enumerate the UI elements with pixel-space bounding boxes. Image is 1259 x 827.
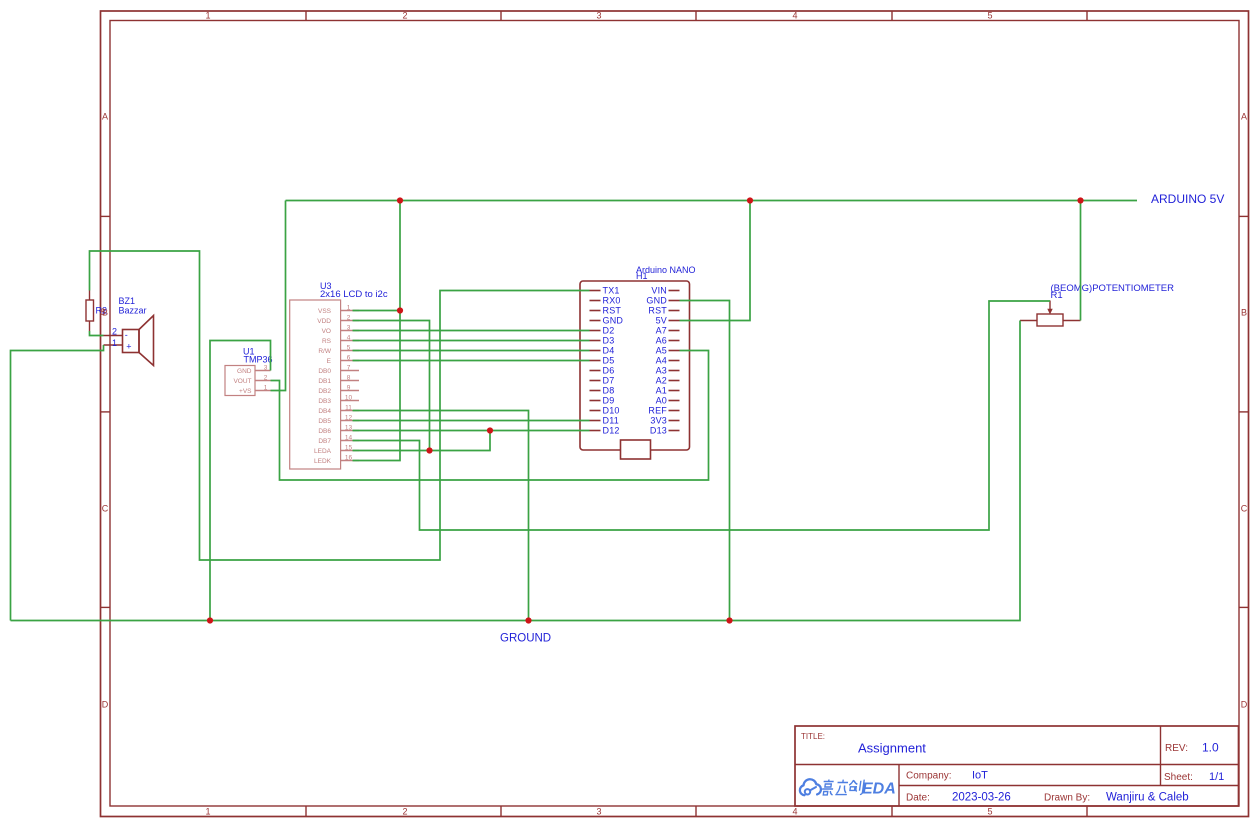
wire R1 right to rail xyxy=(1080,201,1082,321)
wire BZ1 pin1 to ground rail xyxy=(11,345,104,621)
svg-text:+: + xyxy=(126,342,131,352)
svg-text:IoT: IoT xyxy=(972,770,988,782)
svg-text:GND: GND xyxy=(603,316,624,326)
svg-text:4: 4 xyxy=(347,334,351,341)
svg-text:10: 10 xyxy=(345,394,353,401)
svg-text:D2: D2 xyxy=(603,326,615,336)
svg-text:4: 4 xyxy=(792,807,797,817)
svg-text:9: 9 xyxy=(347,384,351,391)
svg-text:A3: A3 xyxy=(656,366,667,376)
svg-text:2: 2 xyxy=(402,807,407,817)
svg-text:(BEOMG)POTENTIOMETER: (BEOMG)POTENTIOMETER xyxy=(1051,283,1175,294)
svg-text:DB6: DB6 xyxy=(318,428,331,435)
svg-text:D11: D11 xyxy=(603,416,619,426)
svg-text:A4: A4 xyxy=(656,356,667,366)
svg-text:2: 2 xyxy=(402,11,407,21)
wire 5V rail drop to U3 VSS xyxy=(399,201,401,311)
svg-text:GND: GND xyxy=(237,368,252,375)
svg-text:H1: H1 xyxy=(636,271,648,281)
svg-text:7: 7 xyxy=(347,364,351,371)
svg-text:D8: D8 xyxy=(603,386,615,396)
junction node xyxy=(207,617,213,623)
svg-text:16: 16 xyxy=(345,454,353,461)
svg-text:EDA: EDA xyxy=(862,781,896,798)
svg-text:1: 1 xyxy=(347,304,351,311)
svg-text:A: A xyxy=(102,112,108,122)
ic U1 TMP36 xyxy=(225,347,273,396)
potentiometer R1 (BEOMG) xyxy=(1020,283,1174,326)
svg-text:RX0: RX0 xyxy=(603,296,621,306)
wire U3 E to H1 D5 xyxy=(353,360,590,362)
svg-text:5: 5 xyxy=(987,11,992,21)
svg-text:Assignment: Assignment xyxy=(858,741,926,756)
svg-text:D12: D12 xyxy=(603,426,620,436)
svg-text:8: 8 xyxy=(347,374,351,381)
svg-text:15: 15 xyxy=(345,444,353,451)
wire H1 TX1 to R2 xyxy=(90,251,590,560)
svg-text:A2: A2 xyxy=(656,376,667,386)
svg-text:GND: GND xyxy=(646,296,667,306)
junction node xyxy=(747,197,753,203)
svg-text:3: 3 xyxy=(347,324,351,331)
svg-text:11: 11 xyxy=(345,404,352,411)
wire U3 LEDA branch to D12 net xyxy=(353,431,491,451)
buzzer BZ1 Bazzar xyxy=(104,296,154,366)
svg-text:A6: A6 xyxy=(656,336,667,346)
wire ARDUINO 5V rail xyxy=(286,200,1138,202)
svg-text:1: 1 xyxy=(112,338,117,348)
svg-text:Sheet:: Sheet: xyxy=(1164,772,1193,783)
svg-text:RST: RST xyxy=(648,306,667,316)
svg-text:TITLE:: TITLE: xyxy=(801,732,825,741)
wire GROUND rail to R1 left xyxy=(11,321,1021,621)
svg-text:D10: D10 xyxy=(603,406,620,416)
svg-text:DB5: DB5 xyxy=(318,418,331,425)
svg-text:B: B xyxy=(1241,308,1247,318)
svg-text:D7: D7 xyxy=(603,376,615,386)
svg-text:2: 2 xyxy=(112,327,117,337)
svg-text:VDD: VDD xyxy=(317,318,331,325)
svg-text:LEDK: LEDK xyxy=(314,458,332,465)
svg-text:1.0: 1.0 xyxy=(1202,741,1219,755)
svg-text:3V3: 3V3 xyxy=(650,416,667,426)
svg-text:DB7: DB7 xyxy=(318,438,331,445)
svg-text:REV:: REV: xyxy=(1165,743,1188,754)
svg-text:2023-03-26: 2023-03-26 xyxy=(952,792,1011,804)
svg-text:REF: REF xyxy=(648,406,667,416)
svg-text:12: 12 xyxy=(345,414,353,421)
svg-text:LEDA: LEDA xyxy=(314,448,332,455)
svg-text:Drawn By:: Drawn By: xyxy=(1044,793,1090,804)
resistor R2 xyxy=(86,291,107,332)
wire U3 VO to H1 D2 xyxy=(353,330,590,332)
svg-text:+VS: +VS xyxy=(239,388,252,395)
svg-text:Date:: Date: xyxy=(906,793,930,804)
svg-text:3: 3 xyxy=(264,364,268,371)
svg-text:D13: D13 xyxy=(650,426,667,436)
svg-text:A: A xyxy=(1241,112,1247,122)
svg-text:5: 5 xyxy=(987,807,992,817)
svg-text:A5: A5 xyxy=(656,346,667,356)
wire H1 GND to ground rail xyxy=(680,301,730,621)
svg-text:D6: D6 xyxy=(603,366,615,376)
svg-text:GROUND: GROUND xyxy=(500,633,551,645)
wire U1 +VS to 5V rail xyxy=(271,201,286,391)
svg-text:D4: D4 xyxy=(603,346,615,356)
svg-text:5V: 5V xyxy=(656,316,667,326)
wire H1 A5 to U1 VOUT xyxy=(271,351,709,481)
svg-text:3: 3 xyxy=(596,807,601,817)
svg-text:DB1: DB1 xyxy=(318,378,331,385)
svg-text:D5: D5 xyxy=(603,356,615,366)
wire U3 DB6 to H1 D12 xyxy=(353,430,590,432)
wire U3 VDD to LEDA xyxy=(353,321,430,451)
svg-text:3: 3 xyxy=(596,11,601,21)
svg-text:4: 4 xyxy=(792,11,797,21)
svg-text:2: 2 xyxy=(347,314,351,321)
svg-text:DB3: DB3 xyxy=(318,398,331,405)
svg-text:1: 1 xyxy=(264,384,268,391)
wire U3 DB5 to H1 D11 xyxy=(353,420,590,422)
svg-text:Wanjiru & Caleb: Wanjiru & Caleb xyxy=(1106,792,1189,804)
svg-text:R/W: R/W xyxy=(318,348,332,355)
svg-text:VIN: VIN xyxy=(651,286,667,296)
svg-text:VSS: VSS xyxy=(318,308,332,315)
svg-text:C: C xyxy=(1241,504,1248,514)
svg-text:DB2: DB2 xyxy=(318,388,331,395)
wire R2 to BZ1 pin2 xyxy=(90,331,104,336)
svg-text:A0: A0 xyxy=(656,396,667,406)
svg-text:TMP36: TMP36 xyxy=(244,355,273,365)
svg-text:E: E xyxy=(327,358,332,365)
svg-text:D: D xyxy=(1241,700,1248,710)
svg-text:-: - xyxy=(125,330,128,340)
wire U3 DB4 to ground rail xyxy=(353,411,529,621)
svg-text:D9: D9 xyxy=(603,396,615,406)
U3 pin numbers 1-16 xyxy=(345,304,353,461)
svg-text:2x16 LCD to i2c: 2x16 LCD to i2c xyxy=(320,289,388,300)
junction node xyxy=(397,197,403,203)
junction node xyxy=(1077,197,1083,203)
svg-text:D3: D3 xyxy=(603,336,615,346)
svg-text:5: 5 xyxy=(347,344,351,351)
U1 pin numbers 3,2,1 xyxy=(264,364,268,391)
junction node xyxy=(726,617,732,623)
junction node xyxy=(525,617,531,623)
svg-text:C: C xyxy=(102,504,109,514)
svg-text:1/1: 1/1 xyxy=(1209,771,1224,783)
svg-text:1: 1 xyxy=(205,807,210,817)
svg-text:14: 14 xyxy=(345,434,353,441)
wire U3 DB7 to R1 wiper xyxy=(353,301,1051,530)
junction node xyxy=(426,447,432,453)
svg-text:1: 1 xyxy=(205,11,210,21)
svg-text:A7: A7 xyxy=(656,326,667,336)
svg-text:A1: A1 xyxy=(656,386,667,396)
svg-text:ARDUINO 5V: ARDUINO 5V xyxy=(1151,192,1224,206)
ic U3 2x16 LCD to i2c xyxy=(290,281,388,469)
svg-text:D: D xyxy=(102,700,109,710)
wire U3 VSS-LEDK tie xyxy=(353,311,401,461)
wire U3 R/W to H1 D4 xyxy=(353,350,590,352)
wire U3 RS to H1 D3 xyxy=(353,340,590,342)
svg-text:R1: R1 xyxy=(1051,290,1063,301)
wire H1 5V to rail xyxy=(680,201,751,321)
svg-text:VOUT: VOUT xyxy=(233,378,251,385)
svg-text:RST: RST xyxy=(603,306,622,316)
svg-text:13: 13 xyxy=(345,424,353,431)
svg-text:6: 6 xyxy=(347,354,351,361)
svg-text:8: 8 xyxy=(100,307,105,317)
svg-text:DB0: DB0 xyxy=(318,368,331,375)
svg-text:Bazzar: Bazzar xyxy=(119,305,147,315)
svg-text:2: 2 xyxy=(264,374,268,381)
header H1 Arduino NANO xyxy=(580,265,696,459)
svg-text:RS: RS xyxy=(322,338,332,345)
svg-text:VO: VO xyxy=(322,328,331,335)
wire U1 GND to ground rail xyxy=(210,341,271,621)
svg-text:Company:: Company: xyxy=(906,771,952,782)
junction node xyxy=(397,307,403,313)
svg-text:DB4: DB4 xyxy=(318,408,331,415)
svg-text:TX1: TX1 xyxy=(603,286,620,296)
junction node xyxy=(487,427,493,433)
